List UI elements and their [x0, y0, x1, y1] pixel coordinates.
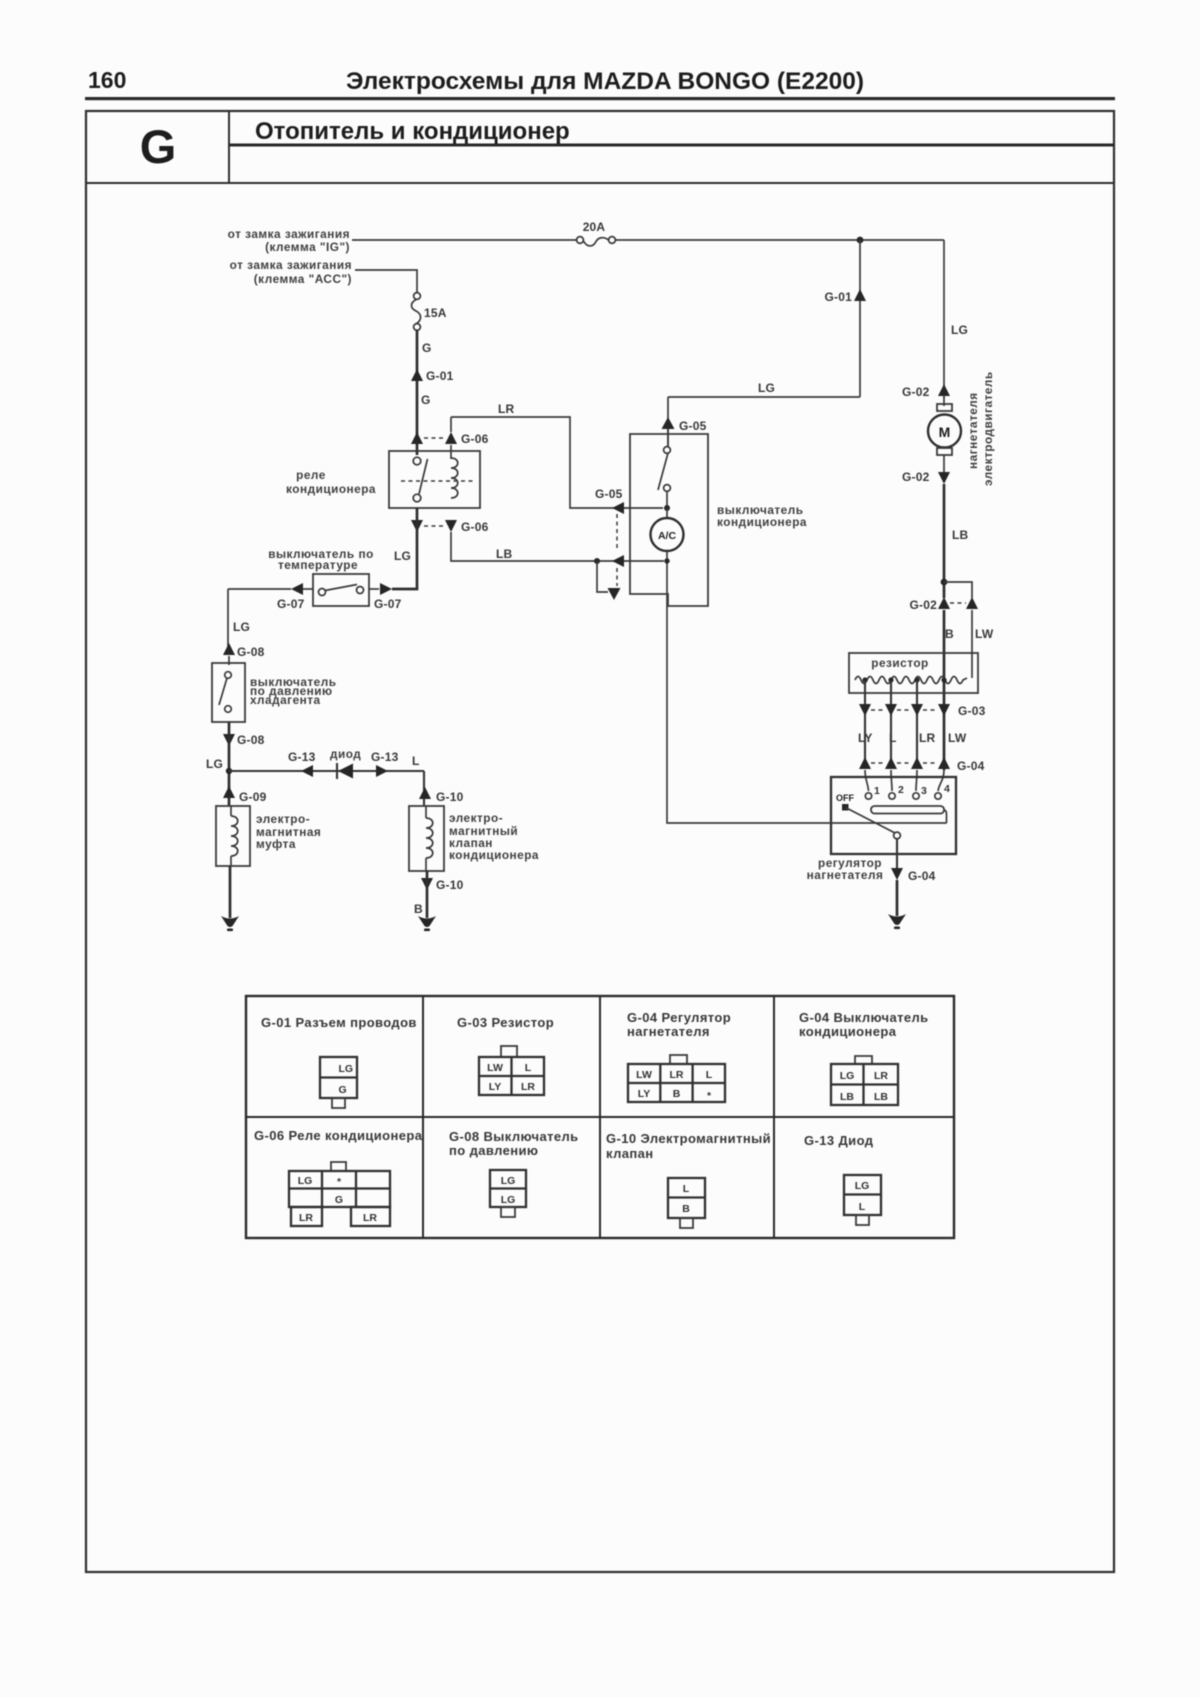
svg-text:LR: LR [919, 731, 936, 745]
svg-text:LW: LW [975, 627, 994, 641]
connector G-04 output [891, 868, 936, 883]
svg-text:LG: LG [394, 549, 411, 563]
svg-text:Отопитель и кондиционер: Отопитель и кондиционер [255, 118, 570, 145]
wire IG feed left [352, 239, 577, 241]
svg-text:кондиционера: кондиционера [449, 848, 539, 862]
svg-text:LG: LG [298, 1175, 313, 1187]
svg-text:LR: LR [521, 1081, 535, 1093]
svg-text:реле: реле [296, 468, 326, 482]
svg-text:LG: LG [339, 1063, 354, 1075]
connector G-08 top [223, 643, 265, 659]
svg-text:от замка зажигания: от замка зажигания [230, 258, 352, 272]
connector G-01 (main feed) [411, 369, 454, 383]
wire to solenoid valve [423, 771, 425, 806]
svg-text:L: L [706, 1069, 713, 1081]
svg-text:G: G [421, 393, 431, 407]
connector G-02 bottom (motor) [902, 470, 950, 484]
node IG source label [228, 227, 350, 254]
connector G-08 bottom [223, 733, 265, 747]
temperature switch (выключатель по температуре) [268, 547, 374, 606]
connector pinout G-04 regulator [628, 1055, 725, 1102]
svg-text:G-08: G-08 [237, 645, 265, 659]
svg-text:B: B [945, 627, 954, 641]
svg-text:G-05: G-05 [595, 487, 623, 501]
svg-text:G: G [335, 1194, 343, 1206]
svg-text:L: L [412, 754, 420, 768]
svg-text:LR: LR [498, 402, 515, 416]
wire LG to AC switch [668, 381, 860, 446]
svg-text:G-03: G-03 [958, 704, 986, 718]
lamp return stub + G-05 pin [597, 561, 621, 600]
svg-text:LG: LG [206, 757, 223, 771]
svg-text:LG: LG [501, 1194, 516, 1206]
wire blower feed [944, 240, 968, 398]
connector pinout G-03 [479, 1046, 544, 1095]
svg-text:G-13: G-13 [288, 750, 316, 764]
connector G-09 [223, 786, 267, 804]
wire LW into resistor [971, 610, 973, 678]
svg-text:LB: LB [952, 528, 969, 542]
svg-text:электродвигатель: электродвигатель [981, 371, 995, 486]
svg-text:LG: LG [758, 381, 775, 395]
table cell G-08 title [449, 1129, 579, 1158]
svg-text:160: 160 [88, 67, 126, 93]
connector pinout G-13 [844, 1175, 881, 1225]
svg-text:муфта: муфта [256, 837, 296, 851]
svg-text:G-01 Разъем проводов: G-01 Разъем проводов [261, 1015, 417, 1030]
wire regulator output [896, 839, 898, 876]
junction lamp/LB [664, 558, 669, 563]
ground (valve) [418, 916, 436, 931]
wire drop to G-01 [859, 240, 861, 397]
connector pinout G-01 [320, 1057, 357, 1108]
connector G-02 top (motor) [902, 384, 950, 399]
svg-text:(клемма "IG"): (клемма "IG") [265, 240, 350, 254]
junction clutch/diode [226, 768, 232, 774]
pressure switch (выключатель по давлению хладагента) [212, 663, 337, 722]
connector G-07 left [277, 583, 313, 611]
AC switch contacts [658, 429, 670, 508]
connector table frame [246, 996, 954, 1238]
connector G-02 (resistor B/LW) [910, 597, 978, 612]
table cell G-04 regulator title [627, 1010, 731, 1039]
wire LB motor to resistor [944, 484, 969, 598]
svg-text:нагнетателя: нагнетателя [627, 1024, 710, 1039]
connector G-10 top [419, 787, 464, 804]
svg-text:LR: LR [670, 1069, 684, 1081]
connector G-03 (resistor) [859, 704, 986, 718]
svg-text:OFF: OFF [836, 793, 854, 803]
svg-text:G-04: G-04 [908, 869, 936, 883]
svg-text:G-08: G-08 [237, 733, 265, 747]
svg-text:LR: LR [363, 1212, 377, 1224]
svg-text:кондиционера: кондиционера [799, 1024, 897, 1039]
svg-text:3: 3 [921, 785, 927, 797]
fuse 20A [577, 220, 616, 246]
ground (regulator) [888, 914, 906, 929]
svg-text:4: 4 [944, 783, 950, 795]
wires into regulator contacts [865, 770, 944, 791]
node lamp/switch [664, 505, 670, 511]
wire clutch to ground [229, 866, 232, 918]
svg-text:LB: LB [496, 547, 513, 561]
svg-text:G: G [140, 120, 177, 173]
svg-text:электро-: электро- [256, 812, 310, 826]
wire valve to ground [426, 871, 429, 918]
svg-text:(клемма "АСС"): (клемма "АСС") [254, 272, 352, 286]
svg-text:G-02: G-02 [902, 385, 930, 399]
svg-text:G-06 Реле кондиционера: G-06 Реле кондиционера [254, 1128, 423, 1143]
svg-text:G-06: G-06 [461, 520, 489, 534]
section header bar [86, 182, 1114, 184]
wire LR relay coil to AC switch [451, 402, 663, 508]
svg-text:M: M [939, 424, 951, 440]
svg-text:B: B [682, 1203, 690, 1215]
connector G-05 dashed ties [616, 514, 618, 586]
svg-text:кондиционера: кондиционера [286, 482, 376, 496]
svg-text:1: 1 [874, 785, 880, 797]
wire ACC feed [355, 270, 417, 293]
svg-text:LG: LG [840, 1070, 855, 1082]
svg-text:G-01: G-01 [825, 290, 853, 304]
svg-text:LG: LG [951, 323, 968, 337]
connector G-13 left [288, 750, 316, 777]
svg-text:G-04 Регулятор: G-04 Регулятор [627, 1010, 731, 1025]
svg-text:LB: LB [840, 1091, 854, 1103]
svg-text:G-04: G-04 [957, 759, 985, 773]
wire pressure switch to junction [228, 722, 231, 806]
relay K1 (реле кондиционера) [286, 445, 480, 508]
blower regulator (регулятор нагнетателя) [807, 777, 956, 882]
svg-text:хладагента: хладагента [250, 693, 321, 707]
svg-text:G-06: G-06 [461, 432, 489, 446]
AC switch box (выключатель кондиционера) [630, 434, 807, 606]
wire LW bypass [944, 582, 972, 598]
svg-text:нагнетателя: нагнетателя [966, 392, 980, 469]
svg-text:LB: LB [874, 1091, 888, 1103]
solenoid valve (электромагнитный клапан кондиционера) [409, 806, 539, 871]
junction IG/AC-switch [857, 237, 864, 244]
wire main feed down [416, 330, 419, 455]
header underline [85, 97, 1115, 100]
svg-text:G-13: G-13 [371, 750, 399, 764]
svg-text:G-10 Электромагнитный: G-10 Электромагнитный [606, 1131, 771, 1146]
connector G-05 top (AC switch) [662, 417, 707, 433]
diode D1 [330, 747, 361, 779]
connector G-07 right [369, 583, 402, 611]
svg-text:20A: 20A [583, 220, 606, 234]
connector G-05 LB pin [612, 555, 624, 567]
svg-text:нагнетателя: нагнетателя [807, 868, 884, 882]
svg-text:LG: LG [501, 1175, 516, 1187]
electromagnetic clutch (электромагнитная муфта) [216, 806, 321, 866]
outer frame [86, 111, 1114, 1572]
svg-text:резистор: резистор [871, 656, 928, 670]
svg-text:G-07: G-07 [277, 597, 305, 611]
svg-text:по давлению: по давлению [449, 1143, 538, 1158]
wires resistor to regulator [865, 716, 917, 759]
connector G-10 bottom [421, 878, 464, 892]
svg-text:электро-: электро- [449, 811, 503, 825]
svg-text:от замка зажигания: от замка зажигания [228, 227, 350, 241]
svg-text:диод: диод [330, 747, 361, 761]
connector pinout G-04 switch [831, 1056, 898, 1105]
svg-text:G-10: G-10 [436, 790, 464, 804]
svg-text:температуре: температуре [278, 558, 358, 572]
svg-text:L: L [525, 1062, 532, 1074]
svg-text:G-08 Выключатель: G-08 Выключатель [449, 1129, 579, 1144]
connector G-04 (regulator) [859, 757, 985, 773]
svg-text:LR: LR [299, 1212, 313, 1224]
svg-text:клапан: клапан [606, 1146, 654, 1161]
connector G-13 right [371, 750, 399, 777]
svg-text:кондиционера: кондиционера [717, 515, 807, 529]
svg-text:LY: LY [638, 1088, 650, 1100]
wire to ground [896, 880, 899, 916]
svg-text:Электросхемы для MAZDA BONGO (: Электросхемы для MAZDA BONGO (Е2200) [346, 68, 864, 95]
blower motor M (электродвигатель нагнетателя) [928, 371, 995, 486]
AC indicator lamp [651, 508, 684, 551]
svg-text:G-07: G-07 [374, 597, 402, 611]
ground (clutch) [221, 916, 239, 931]
connector pinout G-08 [490, 1170, 526, 1217]
wire lamp to regulator [667, 551, 947, 823]
svg-text:B: B [673, 1088, 681, 1100]
svg-text:G-03 Резистор: G-03 Резистор [457, 1015, 554, 1030]
fuse 15A [412, 293, 447, 331]
connector pinout G-06 [289, 1162, 390, 1226]
svg-text:G-09: G-09 [239, 790, 267, 804]
wire LB relay coil to AC switch [451, 532, 664, 561]
junction resistor bypass [941, 579, 948, 586]
svg-text:L: L [889, 731, 897, 745]
wire B into resistor [943, 610, 946, 770]
wire relay to temp switch [392, 508, 417, 589]
svg-text:LW: LW [948, 731, 967, 745]
svg-text:L: L [859, 1201, 866, 1213]
svg-text:G-02: G-02 [910, 598, 938, 612]
svg-text:LY: LY [489, 1081, 501, 1093]
svg-text:LW: LW [487, 1062, 503, 1074]
node lamp return branch [594, 558, 600, 564]
svg-text:G: G [339, 1084, 347, 1096]
svg-text:G: G [422, 341, 432, 355]
wire temp switch to pressure switch [228, 589, 291, 647]
connector pinout G-10 [668, 1178, 705, 1228]
svg-text:15A: 15A [424, 306, 447, 320]
svg-text:G-02: G-02 [902, 470, 930, 484]
wire diode branch [229, 770, 424, 772]
connector G-05 LR pin [595, 487, 624, 514]
table cell G-10 title [606, 1131, 771, 1161]
svg-text:LY: LY [858, 731, 873, 745]
svg-text:2: 2 [898, 784, 904, 796]
svg-text:B: B [414, 902, 423, 916]
connector G-06 top (relay) [411, 432, 489, 446]
connector G-01 (AC switch feed) [825, 289, 866, 304]
svg-text:LR: LR [874, 1070, 888, 1082]
svg-text:G-04 Выключатель: G-04 Выключатель [799, 1010, 929, 1025]
svg-text:G-13 Диод: G-13 Диод [804, 1133, 874, 1148]
svg-text:G-05: G-05 [679, 419, 707, 433]
svg-text:G-10: G-10 [436, 878, 464, 892]
connector G-06 bottom (relay) [411, 520, 489, 534]
wire into pressure switch [228, 656, 230, 665]
table cell G-04 switch title [799, 1010, 929, 1039]
wire IG feed right [615, 239, 944, 241]
svg-text:LW: LW [636, 1069, 652, 1081]
svg-text:LG: LG [855, 1180, 870, 1192]
svg-text:LG: LG [233, 620, 250, 634]
node ACC source label [230, 258, 352, 286]
svg-text:L: L [683, 1183, 690, 1195]
svg-text:G-01: G-01 [426, 369, 454, 383]
svg-text:A/C: A/C [658, 530, 677, 542]
resistor (резистор) [849, 653, 978, 716]
